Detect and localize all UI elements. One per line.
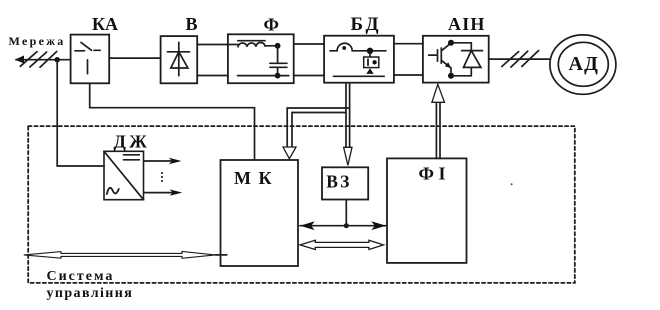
svg-text:Ф І: Ф І — [419, 163, 446, 183]
svg-text:ВЗ: ВЗ — [326, 172, 351, 192]
svg-text:Ф: Ф — [264, 14, 279, 34]
svg-text:В: В — [186, 14, 198, 34]
svg-text:АІН: АІН — [448, 14, 486, 34]
svg-text:М К: М К — [234, 168, 273, 188]
svg-text:АД: АД — [569, 53, 600, 75]
svg-text:управління: управління — [47, 286, 134, 301]
svg-text:ДЖ: ДЖ — [114, 131, 151, 151]
svg-text:БД: БД — [351, 14, 382, 35]
svg-text:Система: Система — [47, 269, 115, 284]
svg-text:Мережа: Мережа — [9, 34, 66, 48]
svg-text:КА: КА — [92, 14, 118, 34]
